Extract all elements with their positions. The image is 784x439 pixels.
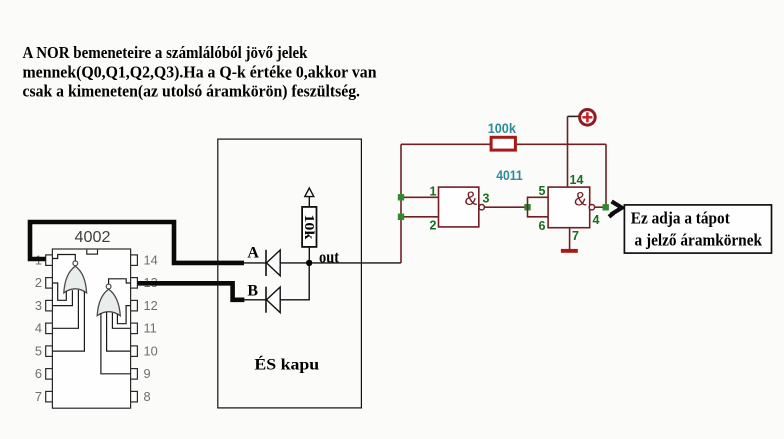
- svg-text:10: 10: [144, 343, 158, 358]
- wire diode B up to node out: [280, 264, 309, 300]
- U2B output bubble: [589, 205, 594, 210]
- NAND gate U2A box: [439, 187, 479, 227]
- svg-text:1: 1: [430, 185, 437, 199]
- wire pin11 to U1B input: [112, 313, 130, 329]
- wire pin12 to U1B input: [117, 306, 130, 324]
- svg-text:7: 7: [572, 229, 579, 243]
- wire R 100k right: [515, 143, 606, 145]
- node square U2B input: [524, 204, 530, 210]
- svg-text:4: 4: [35, 321, 42, 336]
- wire net feedback vertical: [400, 144, 402, 263]
- wire gate1 input pin2: [401, 216, 439, 218]
- svg-text:9: 9: [144, 366, 151, 381]
- U1A output bubble: [73, 261, 78, 266]
- IC U1 4002 body: [52, 249, 130, 408]
- wire stub to power symbol: [568, 115, 580, 117]
- wire pin4 to U1A input: [52, 290, 78, 328]
- IC notch: [87, 250, 98, 255]
- svg-text:A: A: [247, 245, 259, 262]
- wire pin3 to U1A input: [52, 290, 72, 305]
- wire pin9 to U1B input: [101, 313, 131, 374]
- note heading text: [23, 43, 377, 101]
- resistor 10k body: [302, 207, 316, 247]
- wire pin2 to U1A input: [52, 283, 66, 300]
- ES kapu box: [218, 139, 362, 408]
- wire resistor to node out: [308, 247, 310, 260]
- callout text box: [624, 205, 771, 253]
- NOR gate U1B: [97, 289, 120, 316]
- wire U2A out to U2B in: [484, 206, 527, 208]
- svg-text:4002: 4002: [75, 229, 111, 246]
- pin boxes right (14-8): [131, 255, 138, 402]
- node square pin1: [398, 194, 404, 200]
- thick wire from pin13 to diode B: [137, 283, 244, 300]
- wire U1B output to pin13: [109, 279, 131, 284]
- svg-text:5: 5: [35, 343, 42, 358]
- svg-text:14: 14: [570, 173, 584, 187]
- svg-text:2: 2: [35, 275, 42, 290]
- svg-text:11: 11: [144, 321, 157, 336]
- wire arrow to resistor: [308, 197, 310, 207]
- wire pin7 to ground: [569, 228, 571, 249]
- svg-text:6: 6: [35, 366, 42, 381]
- diode A cathode bar: [265, 250, 267, 276]
- wire node out to 4011 stage: [312, 262, 401, 264]
- svg-text:out: out: [319, 248, 339, 267]
- svg-text:10k: 10k: [301, 214, 316, 239]
- diode A triangle: [267, 250, 281, 276]
- svg-text:4: 4: [593, 213, 600, 227]
- wire pin5 to U1A input: [52, 292, 84, 352]
- svg-text:6: 6: [539, 219, 546, 233]
- svg-text:ÉS kapu: ÉS kapu: [254, 355, 319, 374]
- wire to diode A: [243, 262, 266, 264]
- svg-text:4011: 4011: [496, 168, 523, 183]
- U1B output bubble: [106, 284, 111, 289]
- svg-text:3: 3: [35, 298, 42, 313]
- wire diode A to node out: [280, 262, 309, 264]
- NAND gate U2B box: [548, 187, 590, 228]
- wire U2B out to node: [595, 206, 603, 208]
- pin numbers left 1-7: [35, 252, 42, 404]
- svg-text:8: 8: [144, 389, 151, 404]
- svg-text:csak a kimeneten(az utolsó ára: csak a kimeneten(az utolsó áramkörön) fe…: [23, 82, 361, 101]
- U2A output bubble: [479, 205, 484, 210]
- ground: [561, 249, 578, 253]
- wire VDD vertical to pin14: [567, 116, 569, 187]
- resistor R 100k: [491, 137, 515, 150]
- svg-text:Ez adja a tápot: Ez adja a tápot: [631, 209, 730, 228]
- svg-text:B: B: [247, 283, 258, 300]
- svg-text:mennek(Q0,Q1,Q2,Q3).Ha a Q-k é: mennek(Q0,Q1,Q2,Q3).Ha a Q-k értéke 0,ak…: [23, 62, 377, 81]
- NOR gate U1A: [64, 266, 87, 293]
- power arrow above R 10k: [305, 188, 314, 197]
- wire pin10 to U1B input: [107, 312, 131, 351]
- pin boxes left (1-7): [46, 255, 53, 402]
- thick wire from pin1 to diode A: [30, 222, 244, 263]
- wire gate1 input pin1: [401, 196, 439, 198]
- wire to R 100k left: [401, 143, 491, 145]
- diode B cathode bar: [265, 287, 267, 313]
- svg-text:&: &: [574, 190, 587, 211]
- wire U1A output to pin1: [52, 255, 75, 261]
- wire U2B input bracket: [528, 197, 549, 217]
- wire down to gate2 output node: [605, 144, 607, 204]
- svg-text:12: 12: [144, 298, 158, 313]
- svg-text:100k: 100k: [488, 120, 516, 136]
- output arrow: [611, 201, 622, 214]
- svg-text:a jelző áramkörnek: a jelző áramkörnek: [635, 230, 763, 249]
- svg-text:5: 5: [539, 184, 546, 198]
- svg-text:&: &: [465, 189, 478, 210]
- diode B triangle: [267, 287, 281, 313]
- node square output: [603, 204, 609, 210]
- svg-text:7: 7: [35, 389, 42, 404]
- wire to diode B: [243, 299, 266, 301]
- svg-text:14: 14: [144, 252, 158, 267]
- node square pin2: [398, 214, 404, 220]
- svg-text:A NOR bemeneteire a számlálóbó: A NOR bemeneteire a számlálóból jövő jel…: [23, 43, 309, 62]
- node out junction dot: [306, 260, 312, 266]
- power symbol VDD: [580, 110, 596, 126]
- pin numbers right 14-8: [144, 252, 158, 404]
- svg-text:2: 2: [430, 219, 437, 233]
- svg-text:3: 3: [483, 192, 490, 206]
